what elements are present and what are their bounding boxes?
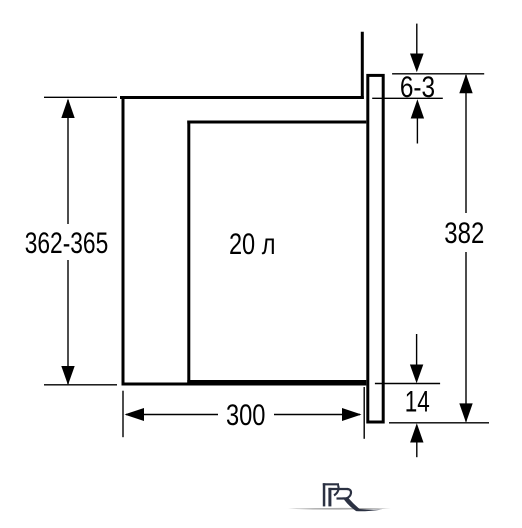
svg-text:382: 382 [444,217,484,250]
logo letter R stem [328,488,331,507]
niche outer box left edge [122,96,125,386]
arrowhead down 14 [410,365,423,384]
svg-text:362-365: 362-365 [25,227,109,260]
logo letter P stem [323,483,326,506]
arrowhead up 6-3 [411,99,424,118]
arrowhead up 382 [459,74,472,93]
tick line bottom right [389,422,489,424]
extension line bottom left [44,384,117,386]
svg-text:6-3: 6-3 [400,71,435,104]
niche outer box top edge [120,96,364,99]
dimension line 300 right segment [274,414,360,416]
dimension line 362-365 lower shaft [67,260,69,384]
logo letter P top bar [323,483,339,485]
arrowhead up 14 [410,423,423,442]
arrow 14 bottom shaft [416,441,418,457]
arrow 6-3 bottom shaft [416,117,418,144]
extension line below cavity right [363,387,365,439]
logo swoosh shadow [288,508,391,510]
dimension line 300 left segment [126,414,218,416]
arrowhead down 362-365 [61,366,74,385]
wall riser line above niche [361,32,364,99]
arrowhead left 300 [125,408,145,421]
dimension line 362-365 upper shaft [67,100,69,224]
arrowhead down 6-3 [410,54,424,73]
tick line 14 top [375,383,440,385]
extension line below niche left [122,391,124,438]
arrow 14 top shaft [416,334,418,366]
svg-text:20 л: 20 л [229,228,276,261]
tick line top right [392,73,484,75]
oven cavity inner box bottom edge [187,380,366,386]
arrowhead up 362-365 [61,99,74,119]
oven cavity inner box left edge [187,121,190,385]
extension line top left [44,96,117,98]
niche outer box bottom edge [122,383,193,386]
svg-text:300: 300 [226,399,266,432]
svg-text:14: 14 [405,386,430,419]
arrowhead down 382 [459,403,472,422]
arrowhead right 300 [342,408,362,421]
logo letter R bowl top [328,488,347,490]
logo letter R bowl bottom [337,497,348,499]
dimension line 382 lower shaft [465,252,467,422]
front frame panel [368,75,383,422]
oven cavity inner box top edge [187,121,366,124]
logo letter R bowl right [347,489,351,498]
dimension line 382 upper shaft [465,75,467,213]
logo letter R leg swoosh [343,497,384,511]
tick line 6-3 bottom [372,97,443,99]
arrow 6-3 top shaft [416,24,418,56]
logo letter P bowl curve [334,485,339,495]
